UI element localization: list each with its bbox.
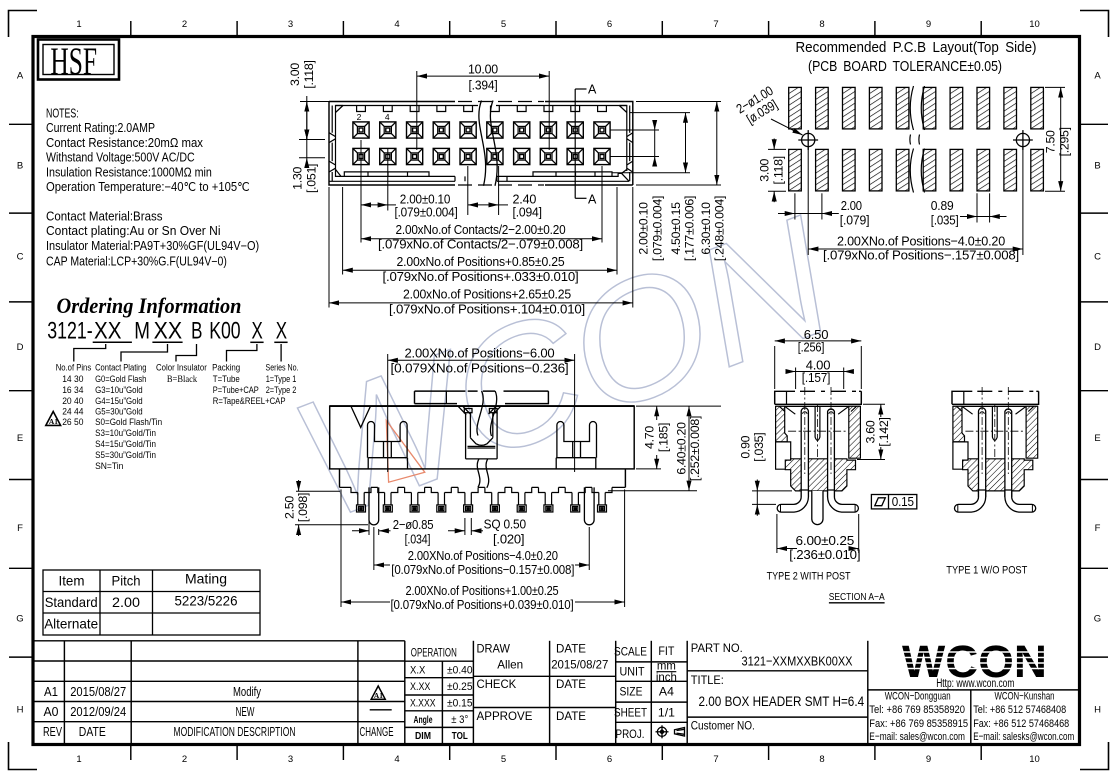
TYPE 1 W/O POST	[946, 387, 1038, 577]
left wall notches	[329, 133, 336, 172]
svg-text:M: M	[134, 318, 150, 345]
center post	[812, 491, 823, 525]
svg-text:4: 4	[385, 112, 390, 122]
svg-text:2.00: 2.00	[841, 198, 862, 213]
svg-text:[.256]: [.256]	[798, 340, 825, 355]
svg-text:G0=Gold Flash: G0=Gold Flash	[95, 374, 146, 385]
svg-text:SCALE: SCALE	[614, 646, 647, 659]
svg-text:26 50: 26 50	[62, 417, 83, 428]
svg-text:No.of Pins: No.of Pins	[56, 363, 92, 374]
svg-text:2.00±0.10: 2.00±0.10	[637, 202, 651, 255]
svg-text:2: 2	[357, 112, 362, 122]
svg-text:2.00XNo.of Positions−4.0±0.20: 2.00XNo.of Positions−4.0±0.20	[837, 234, 1005, 249]
svg-text:FIT: FIT	[658, 645, 674, 658]
svg-text:[.035]: [.035]	[752, 433, 766, 462]
svg-text:A4: A4	[659, 686, 675, 699]
svg-text:2.00XNo.of Positions+1.00±0.25: 2.00XNo.of Positions+1.00±0.25	[406, 583, 559, 598]
center tube	[992, 406, 997, 440]
svg-text:B: B	[191, 318, 202, 345]
part no / title	[691, 641, 864, 733]
svg-text:UNIT: UNIT	[620, 666, 645, 679]
flatness callout	[871, 495, 916, 509]
bottom ticks	[130, 746, 132, 760]
svg-text:Recommended P.C.B Layout(Top S: Recommended P.C.B Layout(Top Side)	[796, 40, 1037, 56]
svg-text:2.00XNo.of Positions−6.00: 2.00XNo.of Positions−6.00	[405, 346, 555, 361]
contacts row 2	[353, 148, 369, 164]
svg-text:OPERATION: OPERATION	[411, 647, 457, 660]
mid wall lines	[331, 106, 333, 182]
svg-text:A1: A1	[374, 691, 383, 700]
right wall hatch	[849, 406, 861, 458]
flange bottom with tabs	[340, 486, 626, 488]
svg-text:A: A	[1094, 71, 1101, 82]
svg-text:A: A	[588, 83, 597, 97]
dim 0.89	[960, 193, 1007, 222]
svg-text:6.30±0.10: 6.30±0.10	[699, 202, 713, 255]
posts	[369, 487, 594, 524]
V notch	[351, 406, 371, 427]
svg-text:[.157]: [.157]	[802, 370, 830, 385]
svg-text:6.00±0.25: 6.00±0.25	[796, 533, 855, 548]
svg-text:S4=15u”Gold/Tin: S4=15u”Gold/Tin	[95, 439, 156, 450]
svg-text:[0.079xNo.of Positions−0.157±0: [0.079xNo.of Positions−0.157±0.008]	[391, 562, 574, 577]
svg-text:Http: www.wcon.com: Http: www.wcon.com	[936, 676, 1014, 690]
pin top inner detail	[803, 412, 834, 414]
svg-text:6.40±0.20: 6.40±0.20	[674, 422, 688, 475]
svg-text:TYPE 1 W/O POST: TYPE 1 W/O POST	[946, 565, 1027, 577]
orange triangle mark	[386, 421, 425, 483]
svg-text:[.034]: [.034]	[405, 532, 431, 547]
svg-text:Series No.: Series No.	[266, 363, 299, 374]
latch right	[556, 422, 596, 469]
svg-text:APPROVE: APPROVE	[477, 709, 533, 723]
svg-text:C: C	[17, 252, 24, 263]
scale col text	[614, 645, 677, 741]
svg-text:X.XXX: X.XXX	[410, 698, 436, 710]
dim 10.00	[417, 71, 549, 150]
svg-text:[.185]: [.185]	[656, 423, 670, 452]
svg-text:Alternate: Alternate	[44, 617, 98, 632]
dim 4.00	[786, 368, 853, 390]
svg-text:5223/5226: 5223/5226	[175, 594, 238, 609]
svg-text:6: 6	[607, 754, 612, 765]
dim 3.00	[768, 139, 786, 203]
svg-text:SECTION A−A: SECTION A−A	[829, 592, 885, 603]
svg-text:SHEET: SHEET	[614, 707, 647, 720]
dim positions-6.00 top	[388, 354, 575, 472]
left wall hatch	[776, 406, 788, 442]
pins white channels	[801, 408, 834, 497]
center tube	[815, 406, 820, 440]
svg-text:4.70: 4.70	[643, 426, 657, 449]
svg-text:B: B	[17, 161, 23, 172]
svg-text:20 40: 20 40	[62, 396, 83, 407]
bottom cavity structure	[336, 169, 630, 181]
left step white	[776, 442, 791, 469]
svg-text:SN=Tin: SN=Tin	[95, 461, 123, 472]
operation table	[405, 660, 474, 662]
dim 2-d0.85	[352, 512, 391, 535]
svg-text:[.118]: [.118]	[771, 156, 785, 184]
svg-text:8: 8	[819, 19, 824, 30]
dim 0.90	[752, 480, 792, 516]
svg-text:6: 6	[607, 19, 612, 30]
svg-text:NOTES:: NOTES:	[46, 107, 79, 121]
svg-text:Current Rating:2.0AMP: Current Rating:2.0AMP	[46, 121, 155, 135]
svg-text:Contact Resistance:20mΩ max: Contact Resistance:20mΩ max	[46, 136, 204, 150]
svg-text:P=Tube+CAP: P=Tube+CAP	[213, 385, 259, 396]
cable break curves	[477, 391, 497, 488]
svg-text:1.30: 1.30	[291, 167, 305, 190]
svg-text:2015/08/27: 2015/08/27	[70, 685, 126, 699]
latch left	[368, 422, 408, 469]
svg-text:DATE: DATE	[556, 677, 586, 691]
svg-text:NEW: NEW	[236, 705, 255, 719]
right side dims	[610, 102, 721, 186]
svg-text:H: H	[1094, 705, 1101, 716]
svg-text:Contact Plating: Contact Plating	[95, 363, 146, 374]
svg-text:CHANGE: CHANGE	[360, 725, 394, 739]
svg-text:[.079xNo.of Contacts/2−.079±0.: [.079xNo.of Contacts/2−.079±0.008]	[378, 237, 583, 252]
body outline	[330, 406, 635, 487]
cap	[775, 391, 862, 404]
operation table text	[410, 647, 473, 743]
svg-text:XX: XX	[154, 318, 183, 345]
centerlines	[788, 387, 847, 474]
svg-text:[0.079xNo.of Positions+0.039±0: [0.079xNo.of Positions+0.039±0.010]	[391, 597, 574, 612]
svg-text:Operation Temperature:−40℃ t: Operation Temperature:−40℃ to +105℃	[46, 180, 250, 194]
svg-text:Tel: +86 512 57468408: Tel: +86 512 57468408	[973, 704, 1066, 716]
svg-text:5: 5	[501, 19, 506, 30]
projection symbol	[656, 725, 685, 738]
svg-text:DATE: DATE	[556, 642, 586, 656]
svg-text:[.079xNo.of Positions+.033±0.0: [.079xNo.of Positions+.033±0.010]	[383, 269, 579, 284]
svg-text:[.177±0.006]: [.177±0.006]	[683, 196, 697, 261]
svg-text:G5=30u”Gold: G5=30u”Gold	[95, 406, 143, 417]
svg-text:Ordering Information: Ordering Information	[57, 293, 242, 318]
svg-text:TYPE 2 WITH POST: TYPE 2 WITH POST	[767, 571, 851, 583]
svg-text:WCON−Dongguan: WCON−Dongguan	[885, 691, 951, 703]
svg-text:C: C	[1094, 252, 1101, 263]
svg-text:Mating: Mating	[185, 572, 227, 587]
svg-text:S3=10u”Gold/Tin: S3=10u”Gold/Tin	[95, 428, 156, 439]
tabs and legs	[351, 487, 612, 492]
pitch 2.00	[360, 140, 362, 243]
below dims	[329, 140, 633, 308]
svg-text:Customer NO.: Customer NO.	[691, 719, 755, 733]
scale/fit	[650, 641, 652, 744]
4.50	[630, 112, 690, 114]
warning triangle	[46, 412, 61, 427]
svg-text:[.079]: [.079]	[840, 213, 870, 228]
svg-text:[.295]: [.295]	[1057, 127, 1071, 156]
svg-text:2.00xNo.of Positions+2.65±0.25: 2.00xNo.of Positions+2.65±0.25	[403, 287, 571, 302]
dim SQ 0.50	[448, 518, 483, 535]
svg-text:8: 8	[819, 754, 824, 765]
flange	[340, 469, 626, 488]
right ticks	[1081, 123, 1108, 125]
svg-text:REV: REV	[43, 725, 62, 739]
svg-text:E: E	[17, 433, 23, 444]
svg-text:[.051]: [.051]	[305, 164, 319, 193]
body top line	[776, 405, 861, 407]
top wall notches	[357, 106, 607, 112]
svg-text:PROJ.: PROJ.	[616, 728, 645, 741]
svg-text:10: 10	[1029, 19, 1040, 30]
column numbers bottom	[76, 754, 1039, 765]
rev table verticals	[63, 641, 65, 744]
svg-text:G: G	[16, 614, 23, 625]
svg-text:0.15: 0.15	[892, 494, 914, 509]
svg-text:10.00: 10.00	[468, 62, 498, 77]
change symbols	[370, 686, 392, 710]
svg-text:5: 5	[501, 754, 506, 765]
svg-text:E−mail: salesks@wcon.com: E−mail: salesks@wcon.com	[973, 731, 1074, 743]
svg-text:G3=10u”Gold: G3=10u”Gold	[95, 385, 143, 396]
svg-text:MODIFICATION DESCRIPTION: MODIFICATION DESCRIPTION	[174, 725, 296, 739]
svg-text:±0.40: ±0.40	[447, 665, 473, 677]
svg-text:10: 10	[1029, 754, 1040, 765]
svg-text:[.248±0.004]: [.248±0.004]	[713, 196, 727, 261]
svg-text:DATE: DATE	[79, 725, 106, 739]
dim 7.50	[1045, 87, 1065, 191]
svg-text:Pitch: Pitch	[112, 574, 141, 589]
dim 3.60	[857, 404, 885, 459]
contacts row 1	[353, 122, 369, 138]
+0.85	[342, 187, 344, 275]
2.00 rows	[610, 129, 659, 131]
svg-text:(PCB BOARD TOLERANCE±0.05): (PCB BOARD TOLERANCE±0.05)	[808, 59, 1002, 75]
dim 6.00	[777, 514, 859, 553]
6.30	[636, 101, 721, 103]
svg-text:K00: K00	[209, 318, 240, 345]
TYPE 2 WITH POST	[739, 327, 917, 603]
svg-text:[.142]: [.142]	[877, 417, 891, 446]
svg-text:4: 4	[394, 754, 399, 765]
bottom tabs	[344, 172, 429, 177]
svg-text:3121−XXMXXBK00XX: 3121−XXMXXBK00XX	[742, 654, 853, 669]
svg-text:±0.25: ±0.25	[447, 681, 473, 693]
svg-text:[.236±0.010]: [.236±0.010]	[789, 547, 860, 562]
dim positions-4.0 bottom	[374, 527, 589, 570]
outer rect with dashed zone at break	[329, 102, 633, 186]
svg-text:Packing: Packing	[212, 363, 240, 374]
svg-text:± 3°: ± 3°	[451, 714, 468, 726]
pads row1	[789, 87, 1044, 190]
dim 2.00	[778, 193, 839, 219]
svg-text:E: E	[1094, 433, 1100, 444]
svg-text:Color Insulator: Color Insulator	[156, 363, 207, 374]
svg-text:2.00xNo.of Contacts/2−2.00±0.2: 2.00xNo.of Contacts/2−2.00±0.20	[396, 222, 566, 237]
svg-text:B: B	[1094, 161, 1100, 172]
svg-text:[.035]: [.035]	[931, 213, 959, 228]
svg-text:[.079xNo.of Positions+.104±0.0: [.079xNo.of Positions+.104±0.010]	[389, 302, 585, 317]
svg-text:DIM: DIM	[415, 731, 431, 742]
svg-text:Standard: Standard	[45, 595, 98, 610]
dim 4.70 right	[636, 406, 661, 469]
svg-text:X.X: X.X	[410, 665, 426, 677]
svg-text:2.00 BOX HEADER SMT H=6.4: 2.00 BOX HEADER SMT H=6.4	[699, 693, 865, 709]
svg-text:[0.079XNo.of Positions−0.236]: [0.079XNo.of Positions−0.236]	[391, 361, 569, 376]
svg-text:2.00: 2.00	[112, 595, 140, 610]
svg-text:R=Tape&REEL+CAP: R=Tape&REEL+CAP	[213, 396, 286, 407]
svg-text:Withstand Voltage:500V AC/DC: Withstand Voltage:500V AC/DC	[46, 151, 195, 165]
svg-text:3.60: 3.60	[864, 420, 878, 443]
svg-text:Tel: +86 769 85358920: Tel: +86 769 85358920	[869, 704, 965, 716]
svg-text:1/1: 1/1	[658, 707, 675, 720]
+2.65	[328, 187, 330, 308]
svg-text:7: 7	[713, 19, 718, 30]
svg-text:[.079xNo.of Positions−.157±0.0: [.079xNo.of Positions−.157±0.008]	[823, 248, 1019, 263]
left ticks	[9, 123, 32, 125]
svg-text:[.020]: [.020]	[493, 532, 524, 547]
contact info	[869, 691, 1074, 744]
draw/check/approve	[549, 641, 551, 744]
svg-text:X: X	[252, 318, 263, 345]
svg-text:Contact Material:Brass: Contact Material:Brass	[46, 210, 163, 224]
dim 3.00 left	[299, 96, 329, 140]
svg-text:A1: A1	[49, 417, 58, 426]
svg-text:Item: Item	[59, 574, 85, 589]
svg-text:CHECK: CHECK	[477, 677, 517, 691]
svg-text:1=Type 1: 1=Type 1	[266, 374, 297, 385]
svg-text:G4=15u”Gold: G4=15u”Gold	[95, 396, 143, 407]
svg-text:[.079±0.004]: [.079±0.004]	[395, 205, 458, 220]
dim 6.40 right	[608, 406, 721, 491]
svg-text:[.252±0.008]: [.252±0.008]	[688, 416, 702, 481]
svg-text:2.00XNo.of Positions−4.0±0.20: 2.00XNo.of Positions−4.0±0.20	[408, 548, 558, 563]
svg-text:D: D	[1094, 342, 1101, 353]
svg-text:[.094]: [.094]	[513, 205, 542, 220]
rev table text	[43, 685, 394, 739]
svg-text:Fax: +86 769 85358915: Fax: +86 769 85358915	[869, 718, 968, 730]
svg-text:3: 3	[288, 19, 293, 30]
svg-text:3: 3	[288, 754, 293, 765]
svg-text:TITLE:: TITLE:	[691, 673, 724, 687]
dim positions-4.0	[808, 147, 1023, 255]
dim positions+1.00 bottom	[341, 489, 625, 607]
svg-text:9: 9	[926, 754, 931, 765]
svg-text:Insulation Resistance:1000MΩ: Insulation Resistance:1000MΩ min	[46, 165, 212, 179]
svg-text:XX: XX	[94, 318, 122, 345]
break marks	[910, 86, 925, 193]
svg-text:inch: inch	[656, 671, 677, 684]
legs	[777, 490, 858, 512]
svg-text:PART NO.: PART NO.	[691, 641, 743, 655]
svg-text:Insulator Material:PA9T+30%GF: Insulator Material:PA9T+30%GF(UL94V−O)	[46, 239, 259, 253]
draw/check/approve text	[477, 642, 609, 724]
svg-text:CAP Material:LCP+30%G.F(UL94V: CAP Material:LCP+30%G.F(UL94V−0)	[46, 255, 227, 269]
svg-text:Contact plating:Au or Sn O: Contact plating:Au or Sn Over Ni	[46, 224, 221, 238]
svg-text:2: 2	[182, 19, 187, 30]
svg-text:24 44: 24 44	[62, 406, 84, 417]
WCON logo	[902, 636, 1047, 690]
inner cavity rect	[336, 106, 627, 113]
svg-text:A: A	[17, 71, 24, 82]
2.40	[467, 166, 469, 215]
svg-text:G: G	[1094, 614, 1101, 625]
svg-text:3.00: 3.00	[288, 63, 302, 86]
break S-curves	[479, 101, 497, 186]
svg-text:A1: A1	[44, 685, 58, 699]
svg-text:9: 9	[926, 19, 931, 30]
svg-text:[.394]: [.394]	[469, 78, 498, 93]
svg-text:HSF: HSF	[50, 40, 97, 83]
svg-text:WCON−Kunshan: WCON−Kunshan	[995, 691, 1055, 703]
svg-text:2012/09/24: 2012/09/24	[70, 705, 126, 719]
svg-text:2.50: 2.50	[282, 496, 296, 519]
dim 6.50	[775, 341, 862, 389]
svg-text:4: 4	[394, 19, 399, 30]
column numbers top	[76, 19, 1039, 30]
svg-text:A0: A0	[44, 705, 59, 719]
svg-text:2=Type 2: 2=Type 2	[266, 385, 297, 396]
hole circles	[798, 130, 1033, 150]
svg-text:Angle: Angle	[414, 715, 433, 726]
svg-text:1: 1	[76, 19, 81, 30]
svg-text:DRAW: DRAW	[477, 642, 511, 656]
svg-text:0.90: 0.90	[739, 435, 753, 458]
svg-text:3.00: 3.00	[758, 158, 772, 181]
svg-text:[.079±0.004]: [.079±0.004]	[651, 196, 665, 261]
svg-text:4.50±0.15: 4.50±0.15	[669, 202, 683, 255]
svg-text:E−mail: sales@wcon.com: E−mail: sales@wcon.com	[869, 731, 965, 743]
svg-text:B=Black: B=Black	[167, 374, 197, 385]
contacts/2	[601, 166, 603, 243]
svg-text:7: 7	[713, 754, 718, 765]
svg-text:S0=Gold Flash/Tin: S0=Gold Flash/Tin	[95, 417, 162, 428]
svg-text:D: D	[17, 342, 24, 353]
svg-text:1: 1	[76, 754, 81, 765]
svg-text:A: A	[588, 193, 597, 207]
svg-text:DATE: DATE	[556, 709, 586, 723]
svg-text:F: F	[1095, 523, 1101, 534]
svg-text:[.118]: [.118]	[302, 60, 316, 88]
svg-text:F: F	[17, 523, 23, 534]
2-d1.00 label	[734, 83, 783, 128]
svg-text:2.00xNo.of Positions+0.85±0.25: 2.00xNo.of Positions+0.85±0.25	[397, 254, 565, 269]
rev table horizontals	[35, 640, 405, 642]
svg-text:SIZE: SIZE	[620, 686, 643, 699]
svg-text:14 30: 14 30	[62, 374, 83, 385]
svg-text:X: X	[276, 318, 287, 345]
center tower	[458, 406, 501, 459]
bottom block hatch	[785, 459, 855, 491]
svg-text:SQ 0.50: SQ 0.50	[484, 517, 526, 532]
svg-text:±0.15: ±0.15	[447, 698, 473, 710]
svg-text:2: 2	[182, 754, 187, 765]
cap	[415, 391, 549, 404]
svg-text:7.50: 7.50	[1044, 130, 1058, 153]
part no area	[687, 670, 868, 672]
svg-text:X.XX: X.XX	[410, 681, 431, 693]
svg-text:H: H	[17, 705, 24, 716]
dim 2.50 left	[295, 480, 368, 536]
wcon area	[868, 689, 1080, 691]
svg-text:16 34: 16 34	[62, 385, 84, 396]
svg-text:0.89: 0.89	[931, 198, 954, 213]
svg-text:2−ø0.85: 2−ø0.85	[393, 517, 434, 532]
dim 1.30 left	[299, 132, 325, 165]
svg-text:S5=30u”Gold/Tin: S5=30u”Gold/Tin	[95, 450, 156, 461]
section A-A cut line	[575, 89, 586, 198]
svg-text:Allen: Allen	[497, 658, 523, 672]
leader elbows	[74, 344, 281, 362]
svg-text:Modify: Modify	[233, 685, 262, 699]
svg-text:T=Tube: T=Tube	[213, 374, 240, 385]
svg-text:[.098]: [.098]	[296, 493, 310, 522]
svg-text:Fax: +86 512 57468468: Fax: +86 512 57468468	[973, 718, 1069, 730]
